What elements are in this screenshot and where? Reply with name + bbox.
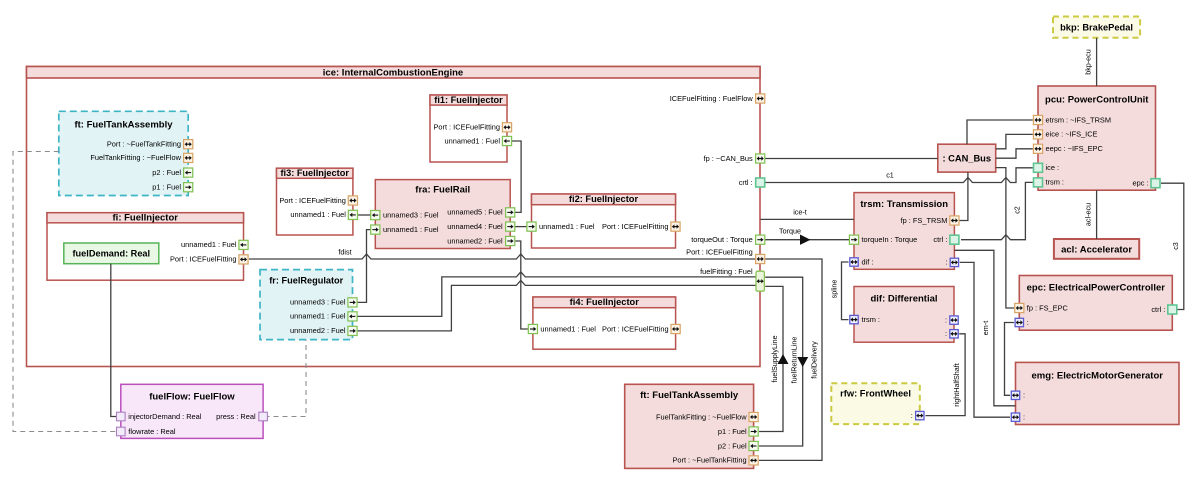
svg-text::: : (945, 315, 947, 324)
port trsm.dif (850, 257, 874, 266)
wire epc to emg upper (1005, 323, 1015, 396)
port pcu.eice : ~IFS_ICE (1033, 130, 1097, 139)
svg-text:fi4: FuelInjector: fi4: FuelInjector (570, 297, 640, 307)
block fi1: FuelInjector (430, 95, 507, 162)
block fi2: FuelInjector (532, 194, 676, 248)
wire trsm to emg lower (960, 262, 1010, 417)
port emg.: (upper) (1011, 391, 1025, 400)
label bkp-ecu (1084, 49, 1093, 75)
port ftb.p1 : Fuel (718, 427, 758, 436)
svg-text:fra: FuelRail: fra: FuelRail (415, 184, 470, 195)
svg-text:unnamed3 : Fuel: unnamed3 : Fuel (383, 210, 439, 219)
svg-text:fuelSupplyLine: fuelSupplyLine (770, 335, 779, 382)
svg-text:p2 : Fuel: p2 : Fuel (152, 168, 181, 177)
svg-text:unnamed2 : Fuel: unnamed2 : Fuel (447, 236, 503, 245)
label fdist (338, 248, 351, 257)
port trsm.fp : FS_TRSM (901, 216, 959, 225)
svg-text:p2 : Fuel: p2 : Fuel (718, 441, 747, 450)
svg-text:ICEFuelFitting : FuelFlow: ICEFuelFitting : FuelFlow (670, 94, 754, 103)
wire fr.unnamed3 to fra.unnamed1 (357, 230, 370, 303)
wire fuelDelivery (759, 259, 822, 460)
block ft: FuelTankAssembly (bottom) (625, 384, 754, 468)
svg-text:acl: Accelerator: acl: Accelerator (1061, 245, 1132, 256)
svg-text:ice: InternalCombustionEngine: ice: InternalCombustionEngine (323, 68, 463, 79)
wire dashed fuelFlow.press to fr (265, 340, 307, 417)
svg-text::: : (1023, 391, 1025, 400)
block fra: FuelRail (375, 180, 510, 249)
wire CAN to eepc (996, 149, 1033, 158)
svg-text::: : (911, 411, 913, 420)
wire fra.unnamed4 to fi2 (515, 226, 527, 228)
svg-text:p1 : Fuel: p1 : Fuel (718, 427, 747, 436)
wire rightHalfShaft (926, 334, 966, 416)
block fr: FuelRegulator (260, 270, 353, 340)
svg-text:torqueOut : Torque: torqueOut : Torque (691, 235, 753, 244)
block acl: Accelerator (1054, 239, 1139, 259)
svg-text:: CAN_Bus: : CAN_Bus (942, 154, 991, 164)
svg-text:eepc : ~IFS_EPC: eepc : ~IFS_EPC (1046, 144, 1104, 153)
svg-text:unnamed1 : Fuel: unnamed1 : Fuel (540, 324, 596, 333)
svg-text::: : (945, 329, 947, 338)
label ice-t (793, 208, 807, 217)
svg-text:ft: FuelTankAssembly: ft: FuelTankAssembly (640, 390, 739, 401)
svg-text:FuelTankFitting : ~FuelFlow: FuelTankFitting : ~FuelFlow (90, 153, 181, 162)
svg-text:unnamed1 : Fuel: unnamed1 : Fuel (181, 240, 237, 249)
label rightHalfShaft (952, 363, 961, 407)
svg-text:fi: FuelInjector: fi: FuelInjector (113, 212, 179, 223)
port rfw.: (911, 411, 924, 420)
svg-text:p1 : Fuel: p1 : Fuel (152, 183, 181, 192)
port pcu.trsm (1034, 178, 1064, 187)
wire acl-ecu (1096, 190, 1098, 239)
label em-t (981, 321, 990, 335)
svg-text:ice :: ice : (1046, 163, 1060, 172)
port dif.: (lower) (945, 329, 958, 338)
port fr.unnamed1 : Fuel (290, 312, 357, 321)
svg-text:bkp-ecu: bkp-ecu (1084, 49, 1093, 75)
wire fra.unnamed2 to fi4 (515, 241, 528, 329)
block fi4: FuelInjector (533, 297, 676, 349)
svg-text:eice : ~IFS_ICE: eice : ~IFS_ICE (1046, 130, 1098, 139)
port trsm.: (right) (945, 258, 958, 267)
block trsm: Transmission (854, 193, 954, 270)
port fr.unnamed2 : Fuel (290, 326, 357, 335)
svg-text:FuelTankFitting : ~FuelFlow: FuelTankFitting : ~FuelFlow (656, 412, 747, 421)
svg-text:trsm :: trsm : (862, 315, 880, 324)
svg-text:torqueIn : Torque: torqueIn : Torque (862, 235, 918, 244)
port fi2.Port : ICEFuelFitting (602, 222, 680, 231)
label fuelDelivery (810, 341, 819, 379)
block fuelDemand: Real (64, 243, 159, 264)
port ftb.Port : ~FuelTankFitting (672, 456, 758, 465)
port ft.p2 : Fuel (152, 168, 193, 177)
block ice: InternalCombustionEngine (27, 67, 761, 367)
wire spline (842, 262, 849, 320)
label fuelSupplyLine (770, 335, 779, 382)
block epc: ElectricalPowerController (1019, 276, 1172, 331)
svg-text:unnamed1 : Fuel: unnamed1 : Fuel (383, 225, 439, 234)
port epc.: (1015, 318, 1029, 327)
svg-text:unnamed1 : Fuel: unnamed1 : Fuel (539, 222, 595, 231)
port ft.p1 : Fuel (152, 183, 193, 192)
block rfw: FrontWheel (831, 383, 920, 424)
svg-text:c3: c3 (1171, 242, 1180, 250)
svg-text:dif: Differential: dif: Differential (870, 294, 937, 305)
svg-text:fi3: FuelInjector: fi3: FuelInjector (280, 168, 349, 178)
svg-text:ice-t: ice-t (793, 208, 807, 217)
port ice.torqueOut : Torque (691, 235, 765, 244)
svg-text:epc: ElectricalPowerController: epc: ElectricalPowerController (1027, 283, 1166, 294)
svg-text:emg: ElectricMotorGenerator: emg: ElectricMotorGenerator (1032, 371, 1164, 382)
svg-text:etrsm : ~IFS_TRSM: etrsm : ~IFS_TRSM (1046, 115, 1112, 124)
label fuelReturnLine (790, 337, 799, 384)
wire fr.unnamed2 to fuelFitting (357, 280, 756, 331)
svg-text:Port : ICEFuelFitting: Port : ICEFuelFitting (433, 123, 500, 132)
wire CAN to etrsm (967, 120, 1033, 144)
port fi1.Port : ICEFuelFitting (433, 123, 511, 132)
port fuelFlow.injectorDemand : Real (117, 412, 202, 421)
svg-text::: : (1023, 413, 1025, 422)
svg-text:epc :: epc : (1132, 179, 1148, 188)
port fi2.unnamed1 : Fuel (527, 222, 595, 231)
svg-text:pcu: PowerControlUnit: pcu: PowerControlUnit (1045, 95, 1149, 106)
wire fr.unnamed1 to fuelFitting (357, 272, 756, 317)
svg-text:fuelDelivery: fuelDelivery (810, 341, 819, 379)
port fi1.unnamed1 : Fuel (445, 136, 512, 145)
svg-text:trsm: Transmission: trsm: Transmission (860, 199, 948, 210)
wire fi1 to fra.unnamed5 (512, 141, 522, 212)
svg-text:fdist: fdist (338, 248, 351, 257)
label c2 (1013, 206, 1022, 214)
port ice.ICEFuelFitting : FuelFlow (670, 94, 765, 103)
block dif: Differential (854, 287, 954, 343)
wire fdist (249, 254, 755, 259)
svg-text:fp : FS_EPC: fp : FS_EPC (1027, 303, 1069, 312)
port epc.ctrl (1151, 305, 1176, 314)
port dif.trsm (850, 315, 880, 324)
svg-text:crtl :: crtl : (739, 178, 753, 187)
port fra.unnamed5 : Fuel (447, 208, 515, 217)
svg-text:unnamed1 : Fuel: unnamed1 : Fuel (290, 312, 346, 321)
block : CAN_Bus (938, 144, 996, 172)
svg-text:fuelFitting : Fuel: fuelFitting : Fuel (700, 267, 753, 276)
svg-text:spline: spline (830, 280, 839, 299)
label acl-ecu (1084, 203, 1093, 226)
wire c2 (961, 182, 1033, 239)
svg-text:Port : ICEFuelFitting: Port : ICEFuelFitting (279, 196, 346, 205)
block ft: FuelTankAssembly (top) (59, 111, 188, 195)
svg-text:fr: FuelRegulator: fr: FuelRegulator (269, 275, 343, 285)
svg-text:acl-ecu: acl-ecu (1084, 203, 1093, 226)
wire em-t (954, 250, 1015, 405)
port fi3.Port : ICEFuelFitting (279, 196, 357, 205)
svg-text:rfw: FrontWheel: rfw: FrontWheel (840, 389, 911, 399)
svg-text:ctrl :: ctrl : (933, 235, 947, 244)
wire c1 (765, 168, 1033, 183)
svg-text:ctrl :: ctrl : (1151, 305, 1165, 314)
svg-text:fp : FS_TRSM: fp : FS_TRSM (901, 216, 948, 225)
svg-text:fi2: FuelInjector: fi2: FuelInjector (569, 194, 639, 204)
svg-text:c1: c1 (886, 171, 894, 180)
svg-text:Port : ICEFuelFitting: Port : ICEFuelFitting (602, 324, 669, 333)
wire Torque (765, 235, 849, 245)
svg-text:unnamed3 : Fuel: unnamed3 : Fuel (290, 298, 346, 307)
port fi3.unnamed1 : Fuel (290, 210, 357, 219)
svg-text:unnamed1 : Fuel: unnamed1 : Fuel (445, 136, 501, 145)
svg-text:fuelFlow: FuelFlow: fuelFlow: FuelFlow (149, 392, 235, 403)
port fi.Port : ICEFuelFitting (170, 255, 248, 264)
port ice.fuelFitting : Fuel (700, 267, 764, 291)
svg-text:fuelReturnLine: fuelReturnLine (790, 337, 799, 384)
svg-text:unnamed2 : Fuel: unnamed2 : Fuel (290, 326, 346, 335)
port fr.unnamed3 : Fuel (290, 298, 357, 307)
svg-text:fp : ~CAN_Bus: fp : ~CAN_Bus (704, 154, 753, 163)
wire fuelSupplyLine (759, 286, 789, 431)
port ft.FuelTankFitting : ~FuelFlow (90, 153, 192, 162)
label c3 (1171, 242, 1180, 250)
svg-text:rightHalfShaft: rightHalfShaft (952, 363, 961, 407)
port fra.unnamed3 : Fuel (371, 210, 439, 219)
svg-text:flowrate : Real: flowrate : Real (128, 427, 176, 436)
wire trsm.fp to CAN (960, 172, 968, 220)
svg-text:unnamed1 : Fuel: unnamed1 : Fuel (290, 210, 346, 219)
port emg.: (lower) (1011, 413, 1025, 422)
port dif.: (upper) (945, 315, 958, 324)
port ice.crtl (739, 178, 765, 187)
port fra.unnamed1 : Fuel (371, 225, 439, 234)
svg-text:unnamed4 : Fuel: unnamed4 : Fuel (447, 222, 503, 231)
svg-text:ft: FuelTankAssembly: ft: FuelTankAssembly (74, 120, 173, 131)
port pcu.etrsm : ~IFS_TRSM (1033, 115, 1111, 124)
port pcu.eepc : ~IFS_EPC (1033, 144, 1103, 153)
svg-text:Port : ICEFuelFitting: Port : ICEFuelFitting (602, 222, 669, 231)
block fuelFlow: FuelFlow (121, 384, 263, 438)
label c1 (886, 171, 894, 180)
svg-text:Port : ICEFuelFitting: Port : ICEFuelFitting (686, 247, 753, 256)
svg-text:Port : ~FuelTankFitting: Port : ~FuelTankFitting (107, 140, 181, 149)
port fra.unnamed2 : Fuel (447, 236, 515, 245)
port epc.fp : FS_EPC (1015, 303, 1069, 312)
port fuelFlow.flowrate : Real (117, 427, 176, 436)
wire ice-t (761, 218, 855, 220)
wire CAN to epc.fp (996, 168, 1014, 308)
svg-text::: : (1027, 318, 1029, 327)
port pcu.ice (1034, 163, 1060, 172)
label Torque (779, 227, 801, 236)
port fra.unnamed4 : Fuel (447, 222, 515, 231)
block fi3: FuelInjector (277, 168, 353, 235)
port fi.unnamed1 : Fuel (181, 240, 248, 249)
svg-text:bkp: BrakePedal: bkp: BrakePedal (1060, 22, 1133, 32)
wire fuelDemand to injectorDemand (111, 264, 116, 417)
label spline (830, 280, 839, 299)
wire c3 (1161, 183, 1184, 309)
wire fi3 to fra (358, 214, 371, 216)
svg-text:Port : ~FuelTankFitting: Port : ~FuelTankFitting (672, 456, 746, 465)
wire dashed ft to fuelFlow.flowrate (13, 152, 116, 432)
svg-text:fi1: FuelInjector: fi1: FuelInjector (434, 95, 503, 105)
wire fp to CAN_Bus (765, 158, 938, 160)
svg-text:Port : ICEFuelFitting: Port : ICEFuelFitting (170, 255, 237, 264)
svg-text:em-t: em-t (981, 321, 990, 335)
svg-text::: : (945, 258, 947, 267)
block pcu: PowerControlUnit (1038, 86, 1156, 190)
port fuelFlow.press : Real (216, 412, 267, 421)
wire bkp-ecu (1096, 38, 1098, 86)
svg-text:press : Real: press : Real (216, 412, 256, 421)
port ice.fp : ~CAN_Bus (704, 154, 765, 163)
port ftb.p2 : Fuel (718, 441, 758, 450)
svg-text:injectorDemand : Real: injectorDemand : Real (128, 412, 201, 421)
port trsm.torqueIn : Torque (849, 235, 917, 244)
block bkp: BrakePedal (1053, 17, 1140, 38)
block emg: ElectricMotorGenerator (1016, 362, 1180, 424)
wire fuelReturnLine (759, 277, 808, 446)
wire CAN to eice (996, 134, 1033, 148)
port ftb.FuelTankFitting : ~FuelFlow (656, 412, 758, 421)
block fi: FuelInjector (47, 212, 244, 280)
port ice.Port : ICEFuelFitting (686, 247, 765, 263)
port ft.Port : ~FuelTankFitting (107, 140, 193, 149)
port fi4.unnamed1 : Fuel (528, 324, 596, 333)
svg-text:Torque: Torque (779, 227, 801, 236)
svg-text:c2: c2 (1013, 206, 1022, 214)
port trsm.ctrl (933, 235, 958, 244)
port pcu.epc (1132, 179, 1160, 188)
port fi4.Port : ICEFuelFitting (602, 324, 680, 333)
svg-text:dif :: dif : (862, 257, 874, 266)
svg-text:trsm :: trsm : (1046, 178, 1064, 187)
svg-text:unnamed5 : Fuel: unnamed5 : Fuel (447, 208, 503, 217)
svg-text:fuelDemand: Real: fuelDemand: Real (72, 249, 150, 259)
